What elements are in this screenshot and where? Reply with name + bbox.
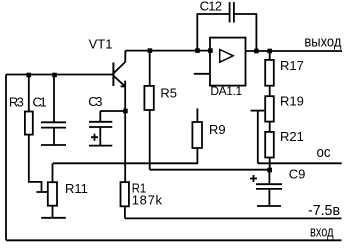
- resistor R1: [121, 182, 129, 206]
- resistor R17: [269, 51, 271, 60]
- resistor R9: [196, 108, 198, 122]
- node op-amp input junction dot: [208, 48, 213, 53]
- wire: inverting input stub: [194, 73, 210, 75]
- wire: H2 line to C9: [150, 169, 270, 171]
- svg-text:R11: R11: [65, 181, 88, 196]
- svg-text:VT1: VT1: [89, 37, 113, 52]
- ground C1 bar: [41, 144, 66, 146]
- ground C9 bar: [257, 205, 281, 207]
- wire R19-R21 link: [269, 122, 271, 132]
- wire: H1 feedback line R11 to R9: [53, 162, 197, 164]
- wire: output line выход: [246, 50, 343, 52]
- node R3 junction dot: [27, 73, 32, 78]
- wire: R21 bottom lead: [269, 158, 271, 171]
- capacitor C1: [53, 75, 55, 122]
- wire: R19 wiper drop to ос: [257, 111, 259, 164]
- node R5 top junction dot: [148, 48, 153, 53]
- svg-text:C12: C12: [200, 0, 223, 14]
- svg-text:C1: C1: [33, 94, 47, 109]
- resistor R21: [265, 132, 274, 158]
- svg-text:R9: R9: [209, 122, 226, 137]
- capacitor C3: [100, 110, 125, 112]
- wire: base wire to VT1: [6, 74, 113, 76]
- svg-text:R5: R5: [160, 86, 177, 101]
- svg-text:R21: R21: [280, 129, 304, 144]
- wire R17-R19 link: [269, 86, 271, 97]
- capacitor C9: [267, 168, 272, 173]
- capacitor C12: [197, 14, 229, 51]
- svg-text:R19: R19: [280, 94, 304, 109]
- resistor R5: [149, 51, 151, 86]
- node R17 top junction dot: [267, 49, 272, 54]
- node C3-emitter junction dot: [123, 109, 128, 114]
- svg-text:-7.5в: -7.5в: [308, 202, 340, 219]
- svg-text:R17: R17: [280, 58, 304, 73]
- wire: R11 wiper bar: [36, 191, 47, 193]
- svg-text:ос: ос: [317, 144, 331, 161]
- node C12 right junction dot: [254, 49, 259, 54]
- svg-text:DA1.1: DA1.1: [210, 84, 242, 98]
- wire: ос line: [258, 162, 342, 164]
- resistor R3: [28, 75, 30, 112]
- svg-text:R3: R3: [9, 94, 24, 109]
- svg-text:C3: C3: [88, 94, 102, 109]
- wire: emitter vertical to R1: [124, 81, 126, 183]
- svg-text:вход: вход: [310, 223, 334, 240]
- ground R11 bar: [41, 217, 66, 219]
- node C1 junction dot: [52, 73, 57, 78]
- wire: collector line to op-amp: [125, 50, 210, 52]
- node C12 left junction dot: [195, 48, 200, 53]
- wire: -7.5в rail: [125, 217, 342, 219]
- svg-text:187k: 187k: [132, 193, 163, 208]
- op-amp DA1.1: [210, 38, 246, 86]
- wire: вход bottom rail: [6, 239, 342, 241]
- svg-text:выход: выход: [304, 34, 341, 51]
- ground C3 bar: [89, 145, 112, 147]
- svg-text:C9: C9: [289, 167, 306, 182]
- resistor R19: [265, 96, 274, 121]
- transistor VT1: [112, 63, 114, 87]
- wire: R19 wiper bar: [251, 110, 265, 112]
- wire: left border vertical: [5, 75, 7, 241]
- resistor R11: [52, 163, 54, 182]
